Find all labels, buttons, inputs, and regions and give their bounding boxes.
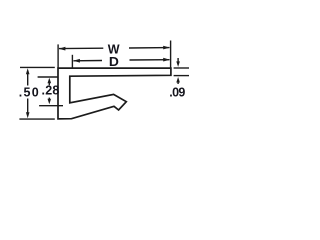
extension line D left xyxy=(71,55,73,69)
dimension W line left segment xyxy=(59,47,103,49)
dimension .50 upper arrow (up) xyxy=(27,72,29,86)
extension line .09 top xyxy=(174,67,189,69)
extension line .28 bottom xyxy=(39,105,63,107)
dimension D arrow left xyxy=(73,59,80,63)
dimension .09 upper arrow (down) xyxy=(177,58,179,62)
dimension .28 lower arrow (down) xyxy=(48,98,50,101)
part outline (drip edge profile) xyxy=(58,68,171,119)
svg-text:.09: .09 xyxy=(169,86,185,100)
extension line .50 bottom xyxy=(19,118,54,120)
extension line W left (part left edge up) xyxy=(57,44,59,68)
extension line W/D right xyxy=(170,41,172,68)
dimension D line right segment xyxy=(130,59,170,61)
dimension .50 lower arrow (down) xyxy=(27,99,29,115)
dimension W arrow right xyxy=(163,46,170,50)
dimension .28 upper arrow (up) xyxy=(48,81,50,85)
extension line .50 top xyxy=(20,66,55,68)
dimension W arrow left xyxy=(59,47,66,51)
svg-text:.50: .50 xyxy=(19,86,39,100)
dimension D arrow right xyxy=(163,58,170,62)
extension line .28 top xyxy=(38,76,58,78)
extension line .09 bottom xyxy=(174,75,189,77)
svg-text:.28: .28 xyxy=(42,83,60,97)
dimension .09 lower arrow (up) xyxy=(177,80,179,84)
svg-text:D: D xyxy=(109,55,119,69)
dimension W line right segment xyxy=(129,47,170,49)
dimension D line left segment xyxy=(73,60,102,62)
